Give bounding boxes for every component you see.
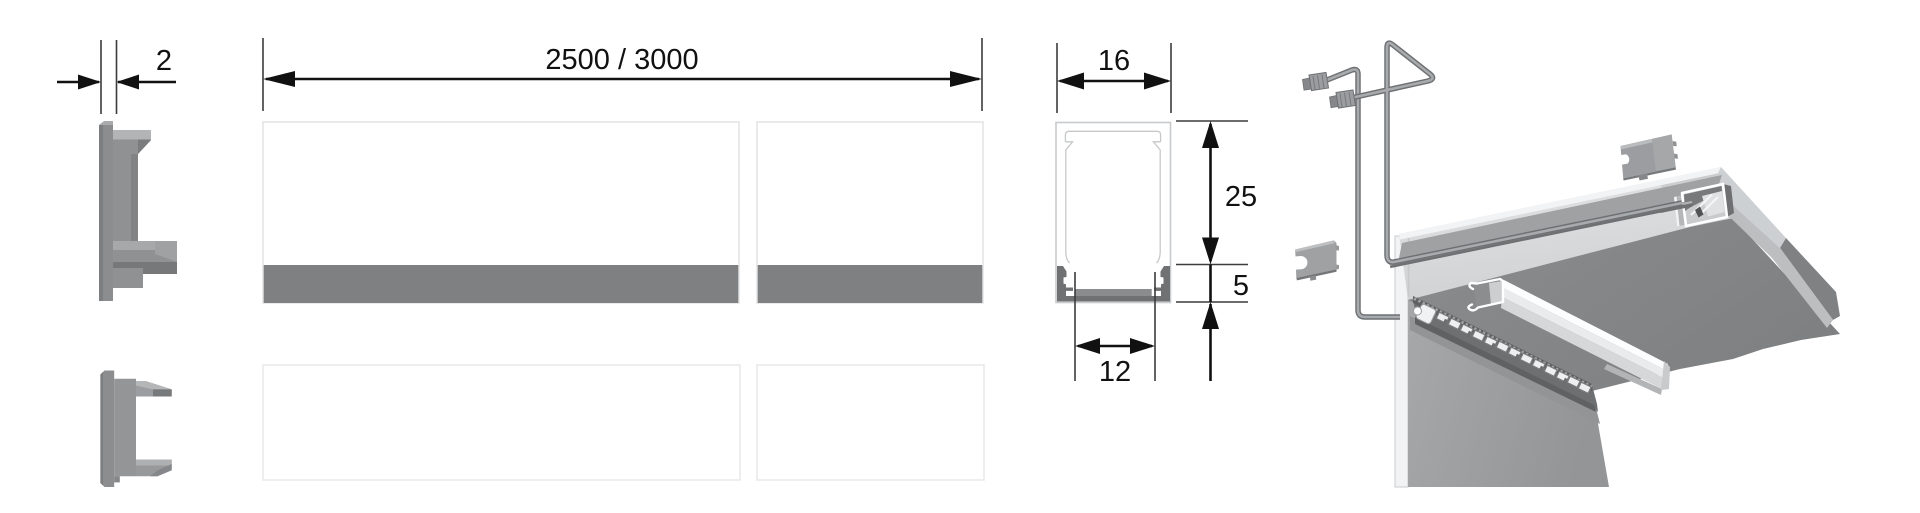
floating channel underside shadow bbox=[1604, 364, 1662, 395]
panel shadow under rail bbox=[1410, 316, 1600, 424]
floating channel top band bbox=[1503, 280, 1668, 371]
wire W1 connector plug bbox=[1303, 73, 1329, 91]
cross-section bottom base bbox=[1057, 266, 1170, 302]
dimension 5 arrow below bbox=[1202, 302, 1219, 381]
dimension 5 extension line bottom bbox=[1176, 301, 1248, 303]
svg-text:2: 2 bbox=[156, 45, 172, 77]
end cap E2 side view bbox=[100, 371, 171, 488]
shelf right side band outer upper bbox=[1712, 167, 1786, 248]
shelf right side band inner bbox=[1707, 186, 1833, 328]
shelf top edge highlight bbox=[1399, 167, 1722, 240]
wire rod along shelf bbox=[1390, 205, 1682, 266]
svg-text:12: 12 bbox=[1099, 356, 1131, 388]
rod into opening bbox=[1660, 202, 1692, 210]
dimension 2 extension line left bbox=[100, 40, 102, 114]
recessed profile opening bbox=[1674, 184, 1734, 226]
dimension 12 extension line left bbox=[1074, 272, 1076, 381]
wire W2 bbox=[1351, 43, 1682, 262]
surface rail ribbed top bbox=[1413, 296, 1592, 391]
dimension 2500/3000 arrow bbox=[263, 71, 982, 87]
panel face bbox=[1408, 296, 1609, 487]
wire W1 bbox=[1327, 70, 1400, 318]
floating channel front face lower bbox=[1501, 297, 1666, 389]
profile bar piece 2 bbox=[757, 122, 983, 303]
surface rail base bbox=[1413, 297, 1598, 412]
wire W2 connector plug bbox=[1330, 90, 1356, 108]
LED strip connector bbox=[1414, 303, 1437, 324]
svg-text:25: 25 bbox=[1225, 181, 1257, 213]
shelf underside bbox=[1408, 218, 1840, 391]
dimension 16 arrow bbox=[1057, 73, 1171, 90]
svg-text:2500 / 3000: 2500 / 3000 bbox=[545, 44, 698, 76]
dimension 12 arrow bbox=[1075, 338, 1155, 354]
dimension 2500/3000 extension line left bbox=[262, 38, 264, 111]
diffuser bar piece 1 bbox=[263, 365, 740, 480]
shelf right side band outer lower dark bbox=[1780, 238, 1840, 320]
dimension 5 line bbox=[1209, 265, 1212, 303]
LED strip module details bbox=[1443, 319, 1568, 384]
floating channel front face upper bbox=[1502, 288, 1667, 379]
shelf face corner shading bbox=[1660, 167, 1731, 228]
panel edge strip bbox=[1395, 236, 1408, 487]
dimension 2 extension line right bbox=[116, 40, 118, 114]
dimension 2 arrow left bbox=[57, 75, 101, 90]
shelf front face bbox=[1399, 167, 1731, 300]
end cap E1 side view bbox=[99, 121, 177, 301]
dimension 2 arrow right bbox=[117, 75, 177, 90]
diffuser bar piece 2 bbox=[757, 365, 984, 480]
dimension 25 arrow bbox=[1202, 121, 1219, 265]
dimension 25 extension line middle bbox=[1176, 264, 1248, 266]
end cap floating top right bbox=[1620, 135, 1678, 181]
floating channel left end cross-section bbox=[1468, 279, 1503, 310]
profile bar piece 1 bbox=[263, 122, 739, 303]
dimension 12 extension line right bbox=[1154, 272, 1156, 381]
surface rail bottom lip bbox=[1415, 317, 1596, 412]
LED strip modules bbox=[1436, 312, 1591, 393]
dimension 25 extension line top bbox=[1176, 120, 1248, 122]
floating channel right end face bbox=[1661, 361, 1670, 390]
panel-shelf junction line bbox=[1408, 238, 1410, 297]
mounting clip floating left bbox=[1295, 240, 1340, 280]
dimension 16 extension line left bbox=[1056, 43, 1058, 113]
dimension 2500/3000 extension line right bbox=[981, 38, 983, 111]
cross-section outer wall bbox=[1056, 123, 1171, 303]
dimension 16 extension line right bbox=[1170, 43, 1172, 113]
svg-text:16: 16 bbox=[1098, 45, 1130, 77]
svg-text:5: 5 bbox=[1233, 270, 1249, 302]
3D scene bbox=[1295, 43, 1841, 487]
recessed groove band along front edge bbox=[1398, 175, 1722, 263]
